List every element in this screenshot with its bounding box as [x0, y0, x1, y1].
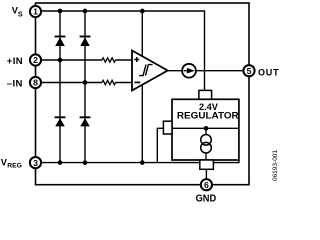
wire: +IN line from pin 2 to comparator: [36, 59, 103, 61]
label VREG: [1, 157, 22, 169]
wire: VS internal rail from pin 1 right to regulator drop: [36, 11, 205, 90]
node: regulator internal junction: [204, 126, 209, 131]
op-amp U1 comparator with hysteresis: [132, 51, 168, 91]
wire: VREG rail from pin 3 to regulator bottom corner: [36, 160, 239, 163]
pin 3: [30, 157, 41, 168]
pin 2: [30, 54, 41, 65]
node: VS rail junction at -IN column: [83, 9, 88, 14]
wire: junction to current source symbol: [205, 128, 207, 135]
node: VREG rail junction at +IN column: [58, 160, 63, 165]
svg-text:3: 3: [33, 158, 38, 168]
wire: -IN clamp column: [84, 11, 86, 163]
svg-text:1: 1: [33, 7, 38, 17]
node: VREG rail junction at -IN column: [83, 160, 88, 165]
pin 6: [201, 179, 212, 190]
resistor R3 (top feed into regulator): [199, 90, 212, 99]
outer block border: [36, 3, 250, 185]
label VS: [12, 6, 23, 19]
pin 5: [243, 65, 254, 76]
current source I1 (overlapping circles symbol): [201, 135, 212, 154]
node: VREG rail junction at comparator supply: [140, 160, 145, 165]
resistor R1 (+IN series zigzag): [102, 58, 116, 62]
svg-text:GND: GND: [196, 194, 217, 204]
node: +IN line junction: [58, 58, 63, 63]
svg-text:6: 6: [204, 180, 209, 190]
wire: current source to box bottom: [205, 153, 207, 160]
svg-text:REG: REG: [7, 163, 22, 170]
wire: comparator top supply from VS rail: [141, 11, 143, 56]
resistor R2 (-IN series zigzag): [102, 80, 116, 84]
svg-text:2: 2: [33, 55, 38, 65]
resistor R4 (regulator bottom to GND): [200, 160, 214, 169]
diode D1 (+IN to VS clamp): [55, 37, 66, 47]
svg-text:–IN: –IN: [7, 78, 23, 89]
svg-text:8: 8: [33, 78, 38, 88]
node: VS rail junction at comparator supply: [140, 9, 145, 14]
svg-text:OUT: OUT: [258, 67, 279, 77]
wire: R4 to pin 6: [205, 169, 207, 180]
wire: VREG rail branch up to R5: [157, 128, 163, 162]
svg-text:REGULATOR: REGULATOR: [177, 111, 239, 121]
svg-text:5: 5: [247, 66, 252, 76]
diode D3 (VREG to +IN clamp): [55, 117, 66, 126]
pin 8: [30, 77, 41, 88]
resistor R5 (VREG sense, left of regulator): [163, 121, 172, 134]
wire: +IN clamp column: [59, 11, 61, 163]
node: -IN line junction: [83, 80, 88, 85]
pin 1: [30, 6, 41, 17]
2.4V regulator block U3: [172, 99, 239, 160]
wire: comparator output to pin 5: [168, 70, 243, 72]
diode D2 (-IN to VS clamp): [80, 37, 91, 47]
wire: -IN line from pin 8 to comparator: [36, 82, 103, 84]
svg-text:+IN: +IN: [7, 56, 23, 67]
svg-text:S: S: [18, 9, 23, 18]
diode D4 (VREG to -IN clamp): [80, 117, 91, 126]
wire: comparator bottom supply to VREG rail: [141, 85, 143, 163]
node: VS rail junction at +IN column: [58, 9, 63, 14]
svg-text:06193-001: 06193-001: [272, 150, 279, 181]
current source U2 (output stage circle with arrow): [182, 64, 196, 78]
